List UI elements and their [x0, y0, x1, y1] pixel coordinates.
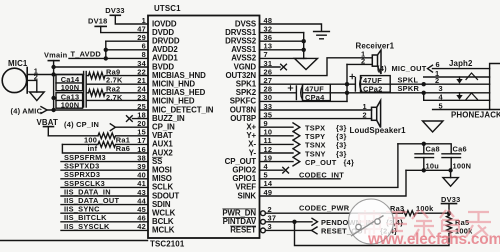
wire pin 49 SINK	[260, 170, 407, 196]
wire pin 23 MICIN_HED	[86, 99, 148, 101]
bubble pin 37 PINTDAV	[261, 219, 266, 224]
wire SSPSFRM3 pin 38	[61, 161, 148, 163]
watermark char 4	[440, 210, 460, 237]
watermark char 2	[386, 212, 407, 231]
wire caps bottom rail	[406, 169, 451, 171]
svg-text:2.7K: 2.7K	[106, 76, 123, 85]
capacitor CPa4	[295, 86, 297, 100]
svg-text:Ca8: Ca8	[426, 145, 440, 154]
wire pin 30 SPKFC	[260, 100, 348, 102]
wire pin 5 GPIO1 CODEC_INT	[260, 178, 341, 180]
resistor Ra2	[86, 90, 148, 96]
watermark logo circle	[349, 199, 394, 244]
svg-text:SINK: SINK	[238, 191, 257, 200]
wire Ra5 bottom loop to pin 37	[295, 222, 450, 246]
svg-text:DV18: DV18	[88, 17, 108, 26]
wire pin 3 RESET_OUT	[265, 229, 311, 231]
power DV33 left	[110, 14, 120, 16]
bubble pin 3 RESET	[261, 228, 266, 233]
svg-text:CODEC_PWR: CODEC_PWR	[299, 204, 350, 213]
svg-text:VBAT: VBAT	[37, 118, 59, 127]
svg-text:PHONEJACK: PHONEJACK	[451, 111, 500, 120]
wire pin 34 BVDD	[54, 66, 148, 68]
no-connect X pin 4 GPIO2	[260, 169, 284, 171]
jack contact lower	[466, 93, 478, 100]
wire SSPTXD3 pin 39	[61, 169, 148, 171]
connector arrow PENDOWN_INT	[312, 218, 318, 225]
wire pin 12 Y-	[260, 152, 294, 154]
svg-text:100N: 100N	[453, 162, 472, 171]
power Vmain	[48, 60, 59, 62]
ground Ca6 triangle	[450, 170, 452, 177]
wire pin 25 AMIC to MIC_DETECT_IN	[47, 109, 148, 111]
svg-text:CPa4: CPa4	[305, 93, 325, 102]
svg-text:RESET: RESET	[230, 226, 256, 235]
svg-text:DV33: DV33	[441, 195, 461, 204]
power VBAT	[44, 126, 54, 128]
svg-text:TSC2101: TSC2101	[150, 240, 185, 249]
svg-text:6: 6	[436, 60, 440, 69]
svg-text:3: 3	[268, 222, 272, 231]
svg-text:T_AVDD: T_AVDD	[71, 50, 102, 59]
svg-text:CODEC_INT: CODEC_INT	[299, 170, 344, 179]
capacitor CPa2	[354, 78, 356, 92]
jack contact upper	[466, 73, 478, 80]
wire SSPSCLK3 pin 41	[61, 186, 148, 188]
wire pin 35 OUT8P to LoudSpeaker1	[260, 118, 372, 120]
svg-text:CP_OUT: CP_OUT	[305, 158, 337, 167]
wire jack pin 6 MIC_OUT	[433, 68, 490, 70]
svg-text:www.elecfans.com: www.elecfans.com	[367, 231, 500, 248]
wire pin 33 OUT8N to LoudSpeaker1	[260, 109, 372, 111]
capacitor Ca14 label box	[56, 75, 83, 91]
wire pin 7 AVSS2	[260, 57, 307, 59]
svg-text:10u: 10u	[426, 162, 440, 171]
wire pin 6 AVDD2	[106, 49, 148, 51]
wire pin 8 AVDD1 / T_AVDD rail	[69, 57, 148, 59]
svg-text:2: 2	[361, 56, 365, 65]
svg-text:42: 42	[137, 222, 146, 231]
wire IIS_SYSCLK pin 42	[61, 229, 148, 231]
wire pin 26 OUT32N to Receiver1 pin 1	[260, 58, 373, 76]
svg-text:(4): (4)	[377, 64, 387, 73]
op-amp U1 chip body TSC2101	[148, 16, 260, 239]
wire IIS_DATA_IN pin 43	[61, 195, 148, 197]
svg-text:inf: inf	[88, 144, 98, 153]
bubble pin 2 PWR_DN	[261, 211, 266, 216]
svg-text:DV33: DV33	[105, 6, 125, 15]
wire SSPRXD3 pin 40	[61, 178, 148, 180]
svg-text:MIC1: MIC1	[8, 59, 28, 68]
no-connect X pin 31 VGND	[260, 66, 281, 68]
wire pin 27 SPK1 / SPKL	[260, 83, 356, 85]
watermark char 3	[412, 210, 434, 237]
svg-text:Japh2: Japh2	[449, 59, 473, 68]
wire pin 11 X-	[260, 143, 294, 145]
wire pin 13 AVSS1	[260, 49, 304, 51]
svg-text:CPa2: CPa2	[363, 84, 383, 93]
connector arrow CP_IN	[110, 124, 115, 131]
connector arrow MIC_OUT	[428, 65, 433, 72]
wire Receiver1 pin 2	[347, 63, 372, 65]
wire MIC1 pin 2	[27, 80, 37, 92]
svg-text:100N: 100N	[61, 100, 80, 109]
wire Vmain vertical rail	[53, 61, 55, 110]
wire AVSS vertical rail	[303, 33, 305, 59]
wire pin 14 VREF	[260, 144, 398, 188]
capacitor plates shared	[83, 72, 85, 108]
speaker Receiver1	[372, 55, 377, 66]
connector arrow RESET_OUT	[312, 227, 318, 234]
power DV33 right	[442, 203, 457, 205]
power DV18	[95, 25, 106, 27]
connector arrows TSPX TSPY TSNX TSNY CP_OUT	[293, 123, 300, 166]
resistor Ra1	[48, 133, 148, 139]
no-connect X pin 18 BUZZ_IN	[133, 118, 149, 120]
wire pin 9 X+	[260, 126, 294, 128]
wire T_AVDD vertical rail	[105, 41, 107, 58]
svg-text:2: 2	[34, 73, 38, 82]
resistor Ra6	[62, 142, 148, 148]
svg-text:2: 2	[363, 110, 367, 119]
wire pin 21 MICIN_HND	[86, 83, 148, 85]
svg-text:UTSC1: UTSC1	[154, 4, 181, 13]
svg-text:100N: 100N	[61, 83, 80, 92]
ground earth symbol	[314, 32, 330, 39]
wire bottom-left border line	[0, 240, 148, 242]
svg-text:MCLK: MCLK	[152, 226, 175, 235]
capacitor Ca13 label box	[56, 93, 83, 109]
ground AVSS triangle	[295, 58, 318, 69]
wire pin 32 DRVSS1	[260, 32, 304, 34]
wire pin 19 CP_OUT	[260, 161, 294, 163]
wire pin 29 DRVDD	[106, 40, 148, 42]
wire IIS_DATA_OUT pin 44	[61, 204, 148, 206]
wire pin 16 AUX2	[62, 144, 148, 153]
svg-text:2.7K: 2.7K	[106, 93, 123, 102]
wire MIC1 pin 1	[27, 74, 83, 76]
resistor Ra9	[86, 72, 148, 78]
svg-text:4: 4	[439, 92, 444, 101]
wire pin 10 Y+	[260, 135, 294, 137]
wire jack pin 1	[424, 76, 490, 78]
phonejack Japh2 body	[490, 64, 500, 110]
resistor Ra3	[403, 211, 450, 216]
watermark char 1	[359, 210, 380, 236]
microphone MIC1	[2, 68, 26, 92]
speaker LoudSpeaker1	[372, 107, 377, 120]
svg-text:5: 5	[439, 101, 443, 110]
watermark char 5	[466, 212, 491, 237]
svg-text:Ca6: Ca6	[453, 145, 467, 154]
resistor Ra5	[447, 216, 452, 234]
svg-text:Ra6: Ra6	[116, 144, 130, 153]
capacitor Ca6	[442, 154, 461, 158]
wire jack pin 5 to ground	[433, 109, 490, 111]
connector arrow AMIC	[41, 107, 47, 114]
svg-text:Vmain: Vmain	[44, 51, 68, 60]
capacitor Ca8 rail top	[398, 144, 451, 154]
wire pin 36 DRVSS2	[260, 40, 304, 42]
watermark elecfans	[359, 210, 491, 237]
wire pin 20 CP_IN	[115, 126, 148, 128]
svg-text:SPKR: SPKR	[398, 84, 420, 93]
wire IIS_SYNC pin 45	[61, 212, 148, 214]
svg-text:(4) CP_IN: (4) CP_IN	[64, 120, 99, 129]
wire jack pin 4	[424, 93, 490, 101]
wire pin 47 DVDD	[101, 26, 148, 32]
wire pin 37 PENDOWN_INT	[265, 221, 312, 223]
svg-text:MIC_OUT: MIC_OUT	[392, 64, 427, 73]
wire pin 28 SPK2 / SPKR	[260, 92, 297, 94]
svg-text:IIS_SYSCLK: IIS_SYSCLK	[64, 222, 110, 231]
wire Ca13 input stub	[54, 97, 56, 99]
capacitor Ca8	[415, 154, 434, 158]
svg-text:49: 49	[264, 188, 273, 197]
wire IIS_BITCLK pin 46	[61, 221, 148, 223]
wire pin 1 IOVDD	[115, 15, 148, 24]
svg-text:LoudSpeaker1: LoudSpeaker1	[350, 126, 407, 135]
svg-text:{4}: {4}	[344, 158, 355, 167]
wire pin 2 CODEC_PWR	[265, 212, 402, 214]
ground jack triangle	[423, 121, 444, 132]
svg-text:(4) AMIC: (4) AMIC	[11, 107, 43, 116]
wire Receiver1 pin2 vertical	[346, 64, 348, 101]
ground mic	[30, 92, 45, 101]
wire pin 48 DVSS to earth ground	[260, 24, 322, 31]
TEXT LAYER	[150, 4, 185, 249]
